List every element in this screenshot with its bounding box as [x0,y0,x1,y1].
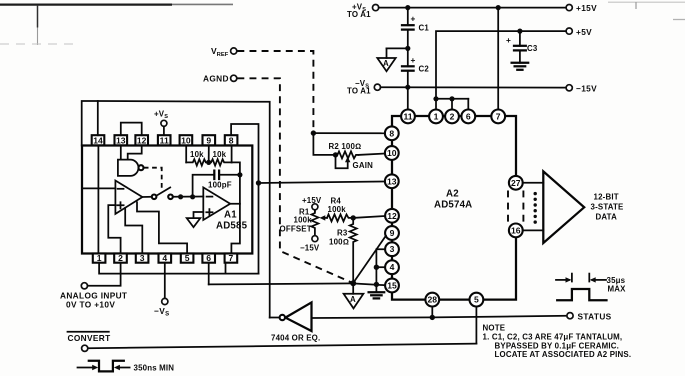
wire pin11 to -Vs rail [407,87,409,109]
svg-text:13: 13 [116,135,126,145]
data bus dots [534,192,537,224]
svg-text:14: 14 [93,135,103,145]
pin 6 (AD585) [202,253,215,263]
wire op1 to pin 5 [137,202,187,253]
svg-text:−15V: −15V [300,244,320,253]
node digital ground [374,282,379,287]
analog ground symbol A (star) [344,283,364,308]
wire op1 + input from pin 2 [108,205,120,253]
node C3 top [517,29,522,34]
svg-text:16: 16 [511,225,521,235]
svg-text:+15V: +15V [302,196,322,205]
svg-text:A2: A2 [446,189,459,200]
dashed NAND to switch [144,168,162,190]
wire AD585 pin6 to star ground [209,283,354,284]
potentiometer R1 100k OFFSET [280,208,328,236]
ground symbol below C3 [512,63,529,70]
svg-text:LOCATE AT ASSOCIATED A2 PINS.: LOCATE AT ASSOCIATED A2 PINS. [495,350,632,359]
label 12-BIT 3-STATE DATA [591,193,624,222]
svg-text:10: 10 [181,135,191,145]
node above pin2 [449,96,454,101]
svg-text:3-STATE: 3-STATE [591,203,624,212]
svg-text:11: 11 [403,111,412,121]
terminal ANALOG INPUT [60,263,127,310]
svg-text:+5V: +5V [576,27,592,37]
svg-text:+VS: +VS [154,110,168,121]
capacitor C3 [506,31,538,63]
svg-text:STATUS: STATUS [578,311,612,321]
dashed data bus box [508,191,523,224]
wire pin 27 to buffer [523,182,544,184]
svg-text:4: 4 [162,253,167,263]
pin 12 [385,209,399,223]
svg-text:11: 11 [160,135,169,145]
wire op1 to pin 3 [125,208,142,254]
terminal CONVERT [68,332,111,352]
capacitor C2 [402,48,429,87]
node above pin1 [433,96,438,101]
node C1 top [405,5,410,10]
svg-text:C3: C3 [527,44,538,53]
node 10k junction / pin9 stub [206,160,211,165]
wire pin 15 to star ground [353,283,385,285]
svg-text:6: 6 [466,111,471,121]
pin 4 (AD585) [159,253,172,263]
resistor R3 100ohm [329,218,357,283]
svg-text:4: 4 [390,262,395,272]
svg-text:10k: 10k [190,150,204,159]
wire node to pin 8 [313,132,385,134]
wire to AD574A pin 13 [259,182,385,184]
pin 9 [385,226,399,240]
svg-text:−15V: −15V [576,84,597,94]
svg-text:9: 9 [206,135,211,145]
terminal -15V [566,84,597,94]
terminal +Vs TO A1 [347,3,379,20]
svg-text:A: A [383,59,389,68]
svg-text:TO A1: TO A1 [347,10,371,19]
pin 4 [385,260,399,274]
terminal AGND [203,74,237,84]
svg-text:GAIN: GAIN [353,161,374,170]
wire pin 5 to convert line [475,307,477,344]
capacitor 100pF [193,171,240,197]
pin 13 [385,174,399,188]
svg-text:R3: R3 [337,229,348,238]
pin 10 (AD585) [180,135,193,145]
ground symbol op2 + [187,212,204,227]
svg-text:0V TO +10V: 0V TO +10V [66,300,115,310]
svg-text:9: 9 [390,228,395,238]
pin 5 [470,293,484,307]
wire pin7 riser [497,8,499,110]
node op2 inverting input [190,194,195,199]
wire AD585 pin8 to hold node [231,124,258,274]
3-state output buffer [543,171,584,243]
svg-text:28: 28 [428,295,438,305]
dashed wire AGND to analog star ground [237,78,353,283]
pin 11 [401,110,415,124]
pin 7 [491,110,505,124]
wire pin 9 diagonal to star ground [353,236,386,283]
svg-text:+: + [411,55,416,65]
pin 2 [445,110,459,124]
svg-text:3: 3 [390,244,395,254]
terminal +15V [566,3,597,13]
wire node to pin 12 [353,216,385,218]
svg-text:NOTE: NOTE [483,324,506,333]
pin 1 (AD585) [93,253,106,263]
wire node down to R2 [313,133,335,155]
node status line [430,315,435,320]
svg-text:6: 6 [206,253,211,263]
node VREF/pin8 [311,130,316,135]
pin 11 (AD585) [158,135,171,145]
svg-text:350ns MIN: 350ns MIN [134,364,175,373]
svg-text:7: 7 [496,111,501,121]
waveform 35us MAX [556,274,626,301]
analog ground symbol A (supply) [377,48,408,71]
wire pin 4 [376,266,385,268]
wire status line [312,316,567,318]
svg-text:100k: 100k [328,205,347,214]
inverter 7404 [270,302,321,342]
pin 6 [461,110,475,124]
svg-text:100Ω: 100Ω [329,238,349,247]
svg-text:AD585: AD585 [216,221,248,232]
pin 27 [509,176,523,190]
wire pin1/pin7 output line [99,263,258,274]
svg-text:5: 5 [474,295,479,305]
svg-text:10: 10 [387,148,397,158]
node pin4 [374,265,379,270]
node switch output [178,194,183,199]
svg-text:8: 8 [229,135,234,145]
pin 3 [385,242,399,256]
op-amp input buffer (AD585) [115,181,142,214]
node cap/feedback [237,172,242,177]
wire pin 16 to buffer [523,229,544,231]
svg-text:C1: C1 [419,24,430,33]
svg-text:100pF: 100pF [208,181,232,190]
wire pin 3 [376,249,385,284]
svg-text:2: 2 [118,253,123,263]
svg-text:+: + [411,14,416,24]
svg-text:12-BIT: 12-BIT [594,193,619,202]
svg-text:OFFSET: OFFSET [280,225,312,234]
svg-text:R2 100Ω: R2 100Ω [329,142,362,151]
node pin13 line [256,180,261,185]
svg-text:1: 1 [434,111,439,121]
wire pin13 to NAND [120,146,122,160]
svg-text:15: 15 [387,281,397,291]
pin 2 (AD585) [114,253,127,263]
svg-text:12: 12 [137,135,147,145]
wire op2 output / feedback [230,175,240,204]
wire pin14 to pin1 internal [97,146,99,254]
resistor 10k left [186,146,209,166]
svg-text:CONVERT: CONVERT [68,333,111,343]
pin 10 [385,146,399,160]
pin 14 [92,135,105,145]
terminal +15V (offset pot) [302,196,322,210]
svg-text:7: 7 [229,253,234,263]
pin 9 (AD585) [203,135,216,145]
node between C1/C2 [405,46,410,51]
switch [142,187,203,199]
pin 5 (AD585) [181,253,194,263]
svg-text:2: 2 [450,111,455,121]
node R2 left [333,152,338,157]
svg-text:VREF: VREF [211,46,229,58]
svg-text:A1: A1 [224,210,237,221]
svg-text:1: 1 [97,253,102,263]
capacitor C1 [402,8,429,49]
pin 13 (AD585) [115,135,128,145]
node analog star ground [350,280,356,286]
waveform 350ns MIN [78,361,175,373]
svg-text:C2: C2 [419,65,430,74]
svg-text:TO A1: TO A1 [347,87,371,96]
digital ground symbol [369,284,385,298]
note text [483,324,632,360]
resistor 10k right [209,150,232,166]
wire convert line [88,344,476,349]
dashed wire VREF to pin8 node [237,51,313,131]
pin 12 (AD585) [135,135,148,145]
svg-text:8: 8 [389,128,394,138]
resistor R4 100k [327,197,353,222]
op-amp A2 AD574A body [392,116,516,300]
wire pin12 to NAND [128,146,142,160]
pin 3 (AD585) [136,253,149,263]
svg-text:7404 OR EQ.: 7404 OR EQ. [271,334,320,343]
pin 16 [509,224,523,238]
svg-text:−VS: −VS [154,306,169,318]
terminal -Vs (AD585 pin4) [154,263,169,318]
page-top rule artifact [0,2,685,45]
wire +Vs to +15V rail [379,7,566,9]
svg-text:AGND: AGND [203,74,229,84]
terminal +5V [566,27,592,37]
svg-text:DATA: DATA [596,213,618,222]
svg-text:5: 5 [185,253,190,263]
wire pin14 riser and hold-line to inverter [82,101,98,146]
wire pin6 drop [208,263,210,285]
svg-text:1. C1, C2, C3 ARE 47μF TANTAL: 1. C1, C2, C3 ARE 47μF TANTALUM, [483,333,623,342]
wire pin 28 stub [431,307,433,318]
svg-text:AD574A: AD574A [434,200,472,211]
wire -Vs to -15V rail [381,86,566,88]
svg-text:10k: 10k [213,150,227,159]
pin 1 [429,110,443,124]
svg-text:12: 12 [387,211,397,221]
pin 15 [385,279,399,293]
pin 28 [425,293,439,307]
terminal -Vs TO A1 [347,79,381,96]
wire pin7 stub [225,263,227,274]
terminal VREF [211,46,237,58]
svg-text:+: + [506,35,511,45]
terminal -15V (offset pot) [300,236,320,253]
NAND gate [118,160,144,176]
sample-hold A1 AD585 body [82,146,252,254]
op-amp A1 AD585 [203,187,247,231]
wire op1 inverting input [83,187,115,189]
pin 7 (AD585) [225,253,238,263]
pin 8 (AD585) [225,135,238,145]
svg-text:+15V: +15V [576,3,597,13]
terminal +Vs (AD585) [154,110,168,136]
wire stubs to pins 1,2,6 [435,99,437,110]
node pin7 riser top [496,5,501,10]
potentiometer R2 100ohm GAIN [329,142,385,170]
pin 8 [385,126,399,140]
svg-text:100k: 100k [294,216,313,225]
wire bridge pins 13-12 [121,123,142,136]
svg-text:13: 13 [387,176,397,186]
terminal STATUS [567,311,612,321]
svg-text:MAX: MAX [608,285,627,294]
wire op2 output to pin 7 internal [231,204,240,254]
svg-text:27: 27 [511,178,521,188]
svg-text:3: 3 [140,253,145,263]
svg-text:BYPASSED BY 0.1μF CERAMIC.: BYPASSED BY 0.1μF CERAMIC. [495,341,620,350]
svg-text:A: A [350,295,356,304]
wire 10k row to pin 8 and to feedback node [231,146,233,163]
node pin11 riser [405,85,410,90]
node R4/R3 [351,215,356,220]
wire +5V rail [436,31,566,99]
